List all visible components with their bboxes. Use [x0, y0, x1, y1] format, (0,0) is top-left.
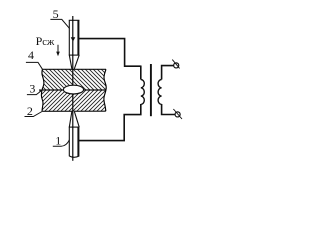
svg-text:4: 4: [28, 48, 34, 62]
svg-text:1: 1: [55, 134, 61, 148]
svg-text:3: 3: [29, 81, 35, 95]
svg-text:5: 5: [53, 7, 59, 21]
svg-text:Рсж: Рсж: [36, 34, 55, 48]
